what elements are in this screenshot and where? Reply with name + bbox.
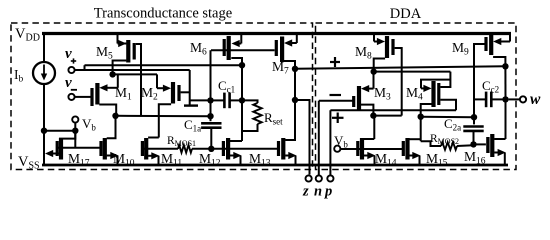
node tail dot — [109, 71, 115, 77]
node M9 drain dot — [502, 63, 508, 69]
transistor M17 — [59, 138, 63, 160]
wire n vertical — [318, 101, 320, 176]
svg-text:v: v — [65, 46, 72, 62]
node RMOS1 C1a dot — [208, 146, 214, 152]
dashed box DDA — [316, 23, 517, 170]
transistor M8 — [385, 36, 389, 58]
wire v+ stub — [75, 69, 85, 71]
resistor RMOS2 — [441, 142, 457, 150]
transistor M15 — [405, 138, 409, 160]
transistor M10 — [103, 138, 107, 160]
capacitor C1a — [201, 122, 221, 125]
node C2a top dot — [471, 114, 477, 120]
wire mirror line to Vb — [44, 130, 75, 132]
wire Cc1 right node to Rset — [242, 100, 258, 103]
transistor M1 — [95, 83, 99, 105]
node C1a top dot — [207, 113, 213, 119]
terminal Vb DDA — [334, 146, 340, 152]
wire M6-M7 gate line — [211, 49, 275, 51]
wire Cc1 left node down — [210, 100, 212, 116]
wire M3 drain — [361, 105, 373, 116]
transistor M3 — [357, 86, 361, 110]
node z lower dot — [292, 97, 298, 103]
bulk tick bar — [184, 104, 198, 106]
transistor M7 — [280, 37, 284, 63]
transistor M5 — [126, 40, 130, 63]
node M1 drain dot — [112, 113, 118, 119]
wire M7 drain down — [294, 69, 296, 100]
node M6 drain dot — [239, 62, 245, 68]
wire M14 drain up — [373, 116, 375, 139]
wire z to DDA plus input — [295, 66, 505, 69]
wire M9 gate down — [474, 44, 486, 117]
wire M17 M10 gate line — [57, 147, 101, 149]
transistor M2 — [171, 82, 175, 104]
wire RMOS2 left to M15 drain — [421, 141, 441, 146]
wire tail line C — [113, 73, 157, 75]
wire M12 drain vertical — [241, 100, 243, 141]
node w dot — [502, 96, 508, 102]
dashed box Transconductance stage — [11, 23, 313, 170]
wire M9 drain — [493, 57, 505, 66]
wire M4 drain — [421, 104, 434, 117]
wire gate bias line RMOS1 row — [142, 148, 178, 150]
VDD rail — [42, 32, 511, 35]
wire M2 source from tail — [156, 74, 158, 88]
terminal Vb — [72, 116, 78, 122]
wire p vertical — [329, 110, 331, 175]
wire M1 drain — [99, 105, 116, 116]
node tail2 dot — [371, 68, 377, 74]
wire M2 gate node to Cc1 left — [190, 99, 211, 101]
wire n to M3 gate — [319, 100, 354, 102]
resistor Rset — [253, 103, 261, 124]
wire M7 drain — [284, 61, 295, 69]
wire Rset bottom to M12 drain node — [242, 124, 258, 131]
transistor M13 — [281, 138, 285, 160]
capacitor C2a — [463, 125, 483, 128]
svg-text:DDA: DDA — [390, 6, 422, 22]
transistor M4 — [431, 81, 435, 107]
wire w node down to M16 drain — [505, 99, 507, 139]
wire M9 drain to w node — [504, 66, 506, 99]
wire M5 drain to tail node — [113, 61, 127, 75]
node M17 drain dot — [72, 128, 78, 134]
wire M6 drain — [231, 58, 242, 65]
transistor M9 — [489, 33, 493, 55]
wire z to terminal — [295, 100, 310, 175]
wire M1 drain node line — [116, 115, 211, 117]
wire M15 drain up to M4 drain node — [420, 117, 422, 142]
node C2a bottom dot — [470, 141, 476, 147]
wire M4 source loop — [421, 80, 450, 89]
plus mark lower — [332, 117, 344, 119]
wire M2 gate stub — [181, 91, 190, 93]
node z upper dot — [292, 66, 298, 72]
wire Cc1 right to M6 drain — [241, 65, 243, 100]
terminal n — [316, 175, 322, 181]
transistor M16 — [490, 134, 494, 157]
VSS rail — [42, 164, 508, 167]
transistor M6 — [227, 36, 231, 60]
wire M3 source to tail2 — [373, 72, 375, 89]
svg-text:p: p — [323, 184, 332, 200]
wire v+ vertical — [189, 70, 191, 105]
wire bias line A to M6 drain — [85, 64, 243, 66]
svg-text:Transconductance stage: Transconductance stage — [94, 5, 232, 21]
svg-text:w: w — [530, 91, 541, 108]
wire Vb to M14 M15 gates — [340, 148, 403, 150]
wire RMOS1 to M12 M13 gates — [192, 148, 278, 150]
transistor M12 — [226, 138, 230, 160]
wire M8 drain to tail2 — [374, 59, 385, 72]
svg-text:v: v — [65, 75, 72, 91]
wire Vb stem — [74, 123, 76, 148]
wire gate line down to Cc1 left node — [210, 50, 212, 100]
svg-text:z: z — [302, 184, 309, 200]
wire v+ line B to M2 gate — [75, 69, 190, 71]
wire M1 source to tail — [117, 74, 119, 87]
wire M5 gate line down to M1 drain node — [136, 44, 141, 116]
wire C2a bottom to M16 gate — [474, 143, 486, 145]
wire v- to M1 gate — [75, 96, 91, 98]
wire Ib to mirror node — [43, 84, 45, 165]
wire tail2 line — [374, 71, 451, 73]
wire p line to M4 gate — [330, 109, 456, 111]
node mirror dot at Ib — [41, 128, 47, 134]
wire Ib to VDD rail — [43, 33, 45, 62]
terminal z — [306, 175, 312, 181]
terminal w — [509, 98, 520, 100]
wire M8 gate down to M3 drain node — [395, 48, 402, 116]
resistor RMOS1 — [178, 145, 192, 153]
wire M2 drain to M11 drain — [159, 104, 171, 137]
svg-text:n: n — [314, 184, 322, 200]
node M3 drain dot — [370, 112, 376, 118]
node Cc1 right dot — [239, 97, 245, 103]
node M4 drain dot — [418, 114, 424, 120]
wire M3 drain node to M8 gate line — [373, 115, 401, 117]
minus mark — [330, 94, 342, 96]
terminal p — [327, 175, 333, 181]
capacitor Cc1 — [223, 93, 226, 109]
wire C2a node to M4 drain node — [421, 116, 474, 119]
current source Ib — [33, 62, 55, 84]
transistor M14 — [360, 138, 364, 160]
wire M4 gate hook — [440, 100, 456, 111]
capacitor Cc2 — [485, 92, 488, 108]
transistor M11 — [144, 138, 148, 160]
plus mark upper — [330, 61, 340, 63]
node Cc1 left dot — [207, 97, 213, 103]
